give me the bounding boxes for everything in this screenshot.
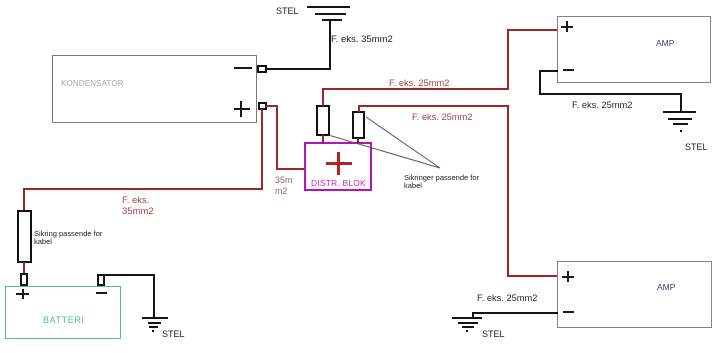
amplifier AMP (top) label xyxy=(656,39,674,48)
amplifier AMP (bottom) label xyxy=(657,283,675,292)
ground symbol STEL (top center, inverted) xyxy=(307,6,350,8)
fuse F2 (left distribution fuse) xyxy=(316,105,330,136)
amplifier AMP (top) plus symbol xyxy=(561,26,573,28)
wire: top amp ground drop xyxy=(539,70,541,95)
label F. eks. 25mm2 (black, top right) xyxy=(572,101,632,110)
amplifier AMP (top) box xyxy=(557,16,711,83)
wire: drop into top-right ground xyxy=(680,93,682,112)
wire: bottom amp minus to ground xyxy=(473,312,558,314)
wire: long battery feed horizontal (F. eks. 35mm2) xyxy=(23,188,263,190)
label STEL (top center) xyxy=(276,7,299,16)
wire: long drop to bottom amp xyxy=(507,105,509,277)
label DISTR. BLOK xyxy=(311,179,366,187)
label STEL (top right) xyxy=(685,143,708,152)
amplifier AMP (bottom) box xyxy=(557,261,712,328)
wire: C1 negative to ground riser (horizontal) xyxy=(266,68,331,70)
battery minus symbol xyxy=(96,292,107,294)
wire: fuse F3 bottom stem into block (dark red) xyxy=(357,138,359,143)
battery box BATTERI xyxy=(5,286,121,339)
amplifier AMP (bottom) plus symbol xyxy=(562,276,574,278)
capacitor C1 negative terminal lug xyxy=(257,65,267,73)
label 35m m2 (red-gray) xyxy=(275,175,293,197)
distribution block plus symbol (red) xyxy=(326,162,352,165)
wire: battery fuse to battery positive terminal xyxy=(23,262,25,274)
capacitor C1 positive terminal lug xyxy=(258,102,267,110)
ground symbol (battery STEL) xyxy=(142,317,168,319)
wire: short ground stem xyxy=(472,312,474,318)
label STEL (battery ground) xyxy=(162,330,185,339)
wire: top amp ground horizontal run xyxy=(539,93,682,95)
wire: battery ground drop xyxy=(153,274,155,318)
wire: C1 positive stub to right xyxy=(266,105,278,107)
wire: fuse F3 top stem xyxy=(358,105,360,112)
battery negative terminal lug xyxy=(97,274,105,286)
wire: fuse F2 bottom stem into block xyxy=(322,135,324,143)
wire: top amp minus out xyxy=(539,70,558,72)
label F. eks. 35mm2 (black, top) xyxy=(331,35,393,45)
wire: upper feed to top amp (horizontal F. eks. 25mm2) xyxy=(322,88,509,90)
capacitor C1 minus polarity mark xyxy=(234,67,252,69)
label F. eks. 35mm2 (red, two lines) xyxy=(122,195,154,217)
ground symbol (bottom amp STEL) xyxy=(452,317,482,319)
wire: C1 positive down to battery feed line xyxy=(261,109,263,190)
wire: ground riser vertical to top STEL ground xyxy=(329,21,331,70)
fuse F1 (battery fuse) xyxy=(17,210,32,263)
capacitor C1 box (KONDENSATOR) xyxy=(52,55,257,123)
fuse F3 (right distribution fuse) xyxy=(352,111,365,139)
amplifier AMP (top) minus symbol xyxy=(563,69,574,71)
wire: drop to battery fuse xyxy=(23,188,25,211)
wire: battery negative to ground (horizontal) xyxy=(100,274,155,276)
label Sikring passende for kabel xyxy=(34,230,102,246)
wire: lower feed to bottom amp (horizontal F. eks. 25mm2) xyxy=(358,105,509,107)
capacitor C1 plus polarity mark xyxy=(234,108,250,110)
capacitor C1 label KONDENSATOR xyxy=(61,80,124,88)
amplifier AMP (bottom) minus symbol xyxy=(563,311,574,313)
label Sikringer passende for kabel xyxy=(404,174,479,190)
wire: into bottom amp plus xyxy=(507,275,558,277)
wire: into top amp plus xyxy=(507,29,558,31)
wire: fuse F2 top stem xyxy=(322,88,324,106)
label STEL (bottom amp) xyxy=(482,330,505,339)
label F. eks. 25mm2 (red, lower) xyxy=(412,113,472,122)
wire: riser to top amp xyxy=(507,29,509,90)
battery positive terminal lug xyxy=(20,273,28,286)
battery plus symbol xyxy=(16,293,29,295)
label F. eks. 25mm2 (red, upper) xyxy=(389,79,449,88)
distribution block box xyxy=(304,142,372,191)
label F. eks. 25mm2 (black, bottom) xyxy=(477,294,537,303)
ground symbol (top right STEL) xyxy=(663,111,696,113)
battery label BATTERI xyxy=(43,316,85,325)
wire: horizontal into DISTR. BLOK left side xyxy=(276,168,305,170)
wire: vertical drop to distribution block feed xyxy=(276,105,278,170)
